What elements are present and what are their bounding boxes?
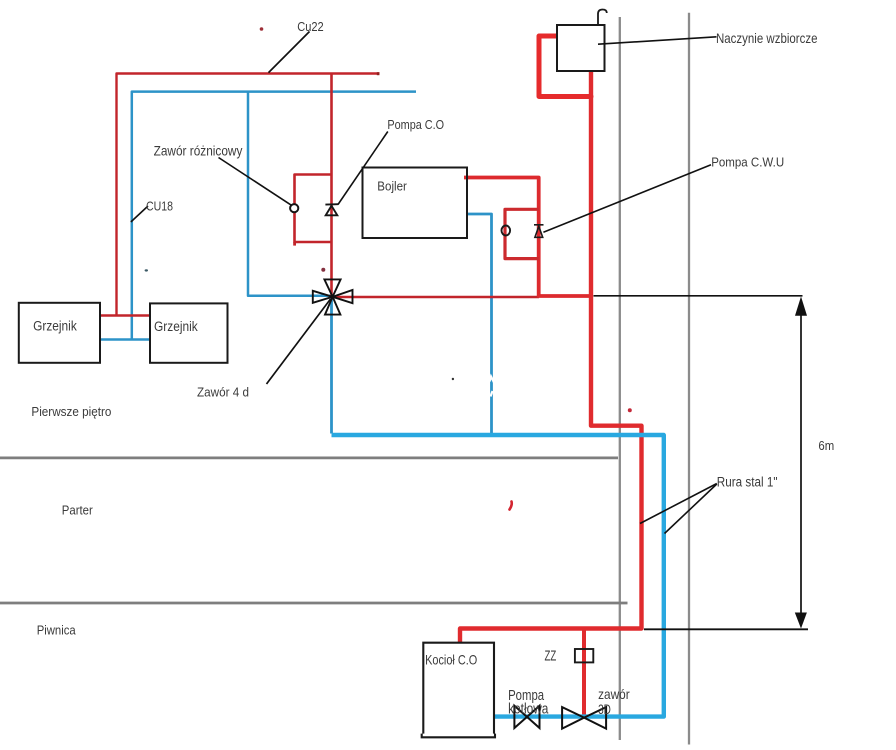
dimension line: bottom horizontal at basement level (644, 628, 808, 630)
pointer line: Pompa C.W.U (543, 165, 711, 232)
pipe hot thick: expansion vessel loop (539, 36, 591, 97)
svg-text:3D: 3D (598, 701, 611, 717)
pointer line: Naczynie wzbiorcze (598, 37, 717, 44)
pipe cold: radiator return horizontal (100, 338, 150, 341)
stray red dot top (260, 27, 264, 31)
pipe hot thick: Bojler outlet horizontal (464, 178, 591, 297)
dimension line: top horizontal at valve level (594, 295, 803, 297)
svg-text:Grzejnik: Grzejnik (154, 319, 198, 334)
box: ZZ (non-return valve) (575, 649, 593, 662)
svg-text:Zawór różnicowy: Zawór różnicowy (154, 143, 243, 159)
svg-text:kotłowa: kotłowa (508, 701, 549, 717)
wall line (gray vertical 2) (688, 13, 690, 745)
pump symbol: Pompa C.W.U (534, 225, 544, 238)
pipe cold: top horizontal CU18 run (132, 92, 416, 340)
svg-text:6m: 6m (818, 438, 834, 453)
svg-text:Pompa C.W.U: Pompa C.W.U (711, 154, 784, 169)
pointer line: Rura stal to cyan pipe (665, 484, 717, 534)
pipe hot thin: differential valve loop (295, 175, 332, 243)
svg-text:CU18: CU18 (146, 199, 173, 214)
pipe hot thin: 4-way valve to main riser (333, 296, 539, 298)
vent hook on vessel (598, 10, 607, 26)
valve: Zawor roznicowy circle symbol (290, 204, 298, 212)
box: Naczynie wzbiorcze (expansion vessel) (557, 25, 605, 71)
pipe cold: valve bottom drop (330, 297, 333, 434)
pointer line: Rura stal to red pipe (640, 484, 717, 524)
pipe hot thin: radiator supply horizontal (100, 314, 150, 316)
pump symbol circle: Pompa C.W.U circle (502, 226, 511, 236)
valve: Zawor 4 d (4-way mixing valve) (313, 279, 353, 314)
white scribble over cyan pipe (erasure mark 1) (490, 377, 495, 382)
valve: Pompa kotlowa bowtie (514, 706, 539, 728)
stray blue dot (145, 269, 148, 271)
pointer line: Cu22 (269, 32, 310, 73)
svg-text:ZZ: ZZ (545, 647, 557, 664)
pipe cold thick: first floor return horizontal (332, 435, 664, 717)
floor line Parter (gray horizontal 1) (0, 457, 618, 460)
pointer line: Zawor 4 d (267, 299, 331, 384)
pipe cold: boiler cold feed from Bojler (467, 214, 492, 433)
dimension line: vertical 6m measure (800, 312, 802, 615)
stray red dot near Parter (628, 408, 632, 412)
pipe cold: drop to 4-way valve (248, 92, 330, 296)
pipe hot thick: main riser down from vessel (460, 71, 642, 643)
box: Kociol C.O (boiler) (422, 643, 495, 738)
wall line (gray vertical 1) (619, 17, 621, 740)
pointer line: Zawor roznicowy (219, 158, 292, 206)
svg-text:zawór: zawór (598, 686, 630, 702)
floor line Piwnica (gray horizontal 2) (0, 602, 628, 605)
svg-text:Piwnica: Piwnica (37, 622, 77, 637)
svg-text:Pierwsze piętro: Pierwsze piętro (31, 405, 111, 419)
svg-text:Kocioł C.O: Kocioł C.O (425, 652, 477, 668)
pointer line: CU18 (131, 206, 148, 222)
box: Bojler (363, 168, 468, 239)
svg-text:Pompa C.O: Pompa C.O (387, 117, 444, 132)
svg-text:Cu22: Cu22 (297, 19, 324, 34)
pipe hot thin: top Cu22 horizontal (117, 74, 380, 316)
stray red comma mark in Parter (510, 502, 512, 510)
dimension arrow down (795, 613, 807, 629)
svg-text:Grzejnik: Grzejnik (33, 318, 77, 333)
pipe hot: C.W.U pump loop (505, 209, 539, 258)
svg-text:Rura stal 1": Rura stal 1" (717, 475, 778, 490)
pointer line: Pompa C.O (338, 132, 388, 205)
pipe end cap dark (377, 72, 380, 75)
svg-text:Zawór 4 d: Zawór 4 d (197, 384, 249, 399)
dimension arrow up (795, 297, 807, 316)
stray dark dot (452, 378, 454, 380)
pipe hot thick: drop through ZZ to 3-way valve (582, 629, 586, 717)
box: Grzejnik right (150, 303, 228, 362)
svg-text:Bojler: Bojler (377, 180, 407, 194)
svg-text:Naczynie wzbiorcze: Naczynie wzbiorcze (716, 31, 818, 46)
pump symbol: Pompa C.O (325, 204, 338, 215)
pipe hot thin: main drop to 4-way valve (330, 74, 333, 298)
svg-text:Parter: Parter (62, 504, 93, 518)
stray red dot above 4-way valve (321, 268, 325, 272)
box: Grzejnik left (19, 303, 100, 363)
white scribble over cyan pipe (erasure mark 2) (491, 391, 493, 397)
valve: zawor 3D bowtie (562, 707, 606, 729)
pipe stub below differential loop (293, 242, 296, 246)
